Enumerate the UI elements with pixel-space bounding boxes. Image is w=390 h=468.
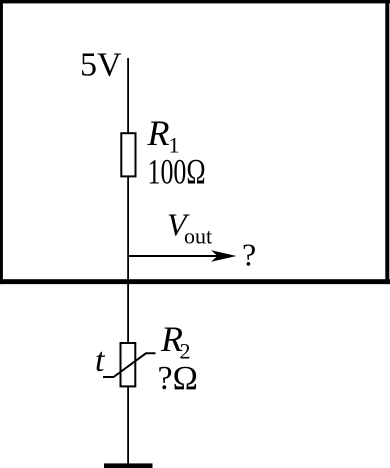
wire (Vout arrow line) bbox=[128, 255, 223, 257]
thermistor R2 body bbox=[121, 343, 136, 386]
svg-text:5V: 5V bbox=[80, 46, 122, 83]
frame left border bbox=[0, 0, 3, 284]
arrowhead bbox=[211, 250, 237, 262]
svg-text:?: ? bbox=[242, 237, 256, 273]
svg-text:t: t bbox=[95, 342, 106, 379]
frame right border bbox=[385, 0, 389, 284]
wire (vertical main wire) bbox=[127, 58, 129, 464]
svg-text:100Ω: 100Ω bbox=[148, 151, 206, 191]
resistor R1 bbox=[121, 133, 135, 176]
svg-text:?Ω: ?Ω bbox=[158, 360, 198, 397]
thermistor R2 diagonal bbox=[103, 353, 156, 377]
frame top border bbox=[0, 0, 390, 3]
svg-text:R: R bbox=[147, 113, 170, 153]
svg-text:out: out bbox=[184, 224, 212, 249]
ground bbox=[104, 463, 153, 468]
frame bottom border bbox=[0, 279, 390, 284]
